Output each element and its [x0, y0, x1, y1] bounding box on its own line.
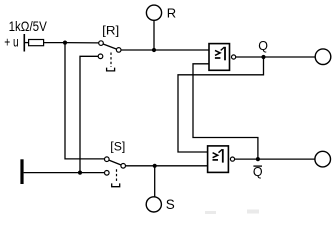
wire R common to gate U1 input (R rail) — [121, 49, 209, 51]
terminal Qbar circle — [315, 151, 331, 167]
svg-text:R: R — [167, 5, 176, 20]
svg-text:[R]: [R] — [102, 26, 119, 38]
node J6 (Qbar junction) — [256, 157, 260, 161]
switch S actuator button — [112, 183, 120, 186]
op-amp U2 (NOR gate bottom) box — [208, 146, 229, 173]
gate U1 output bubble — [232, 55, 236, 59]
cropped artifact left — [205, 211, 216, 214]
wire U2 output to node J6 — [235, 158, 258, 160]
wire J1 down to S switch upper contact (vertical +5V branch) — [65, 43, 104, 159]
svg-text:Q: Q — [258, 39, 268, 53]
node J2 (R terminal junction) — [152, 48, 156, 52]
switch S common contact — [121, 164, 126, 169]
wire R lower contact to 0V branch — [80, 56, 98, 172]
node J5 (Q junction) — [261, 55, 265, 59]
wire J5 to Q terminal — [264, 56, 316, 58]
op-amp U1 (NOR gate top) box — [209, 44, 230, 71]
svg-text:[S]: [S] — [110, 142, 125, 154]
switch R actuator button — [107, 68, 115, 71]
terminal S circle — [146, 197, 161, 212]
wire J2 up to R terminal — [153, 20, 155, 50]
switch R upper contact — [99, 41, 104, 46]
gate U2 output bubble — [230, 157, 234, 161]
svg-text:+ u: + u — [4, 35, 19, 50]
switch R actuator dashed link — [110, 53, 112, 68]
switch S actuator dashed link — [116, 169, 118, 183]
switch S lower contact — [105, 171, 110, 176]
switch R arm — [103, 44, 117, 49]
wire resistor to node J1 — [44, 42, 65, 44]
terminal R circle — [146, 5, 161, 20]
wire minus plate to S switch lower contact (0V rail) — [24, 172, 105, 174]
gate U1 symbol >=1 — [215, 47, 225, 61]
label Qbar — [253, 165, 263, 179]
svg-text:1kΩ/5V: 1kΩ/5V — [9, 18, 48, 34]
svg-text:S: S — [166, 197, 175, 212]
battery plus plate — [23, 34, 25, 52]
wire U1 output to node J5 — [236, 56, 264, 58]
cropped artifact right — [247, 210, 259, 214]
switch S arm — [109, 160, 121, 165]
resistor R1 — [29, 40, 44, 46]
wire feedback Qbar to U1 lower input — [193, 64, 258, 159]
wire J4 down to S terminal — [154, 166, 156, 197]
wire S common to gate U2 input (S rail) — [126, 165, 208, 167]
battery minus plate — [20, 159, 23, 184]
wire feedback Q to U2 upper input — [178, 57, 264, 152]
wire J1 to switch R upper contact — [65, 42, 99, 44]
terminal Q circle — [315, 49, 331, 65]
node J1 (junction under resistor) — [63, 41, 67, 45]
switch R common contact — [116, 48, 121, 53]
wire battery to resistor — [25, 42, 29, 44]
node J4 (S terminal junction) — [153, 164, 157, 168]
node J3 (0V rail junction) — [78, 171, 82, 175]
svg-text:Q: Q — [253, 165, 263, 179]
wire J6 to Qbar terminal — [258, 158, 315, 160]
switch R lower contact — [98, 54, 103, 59]
switch S upper contact — [105, 157, 110, 162]
gate U2 symbol >=1 — [213, 149, 223, 163]
